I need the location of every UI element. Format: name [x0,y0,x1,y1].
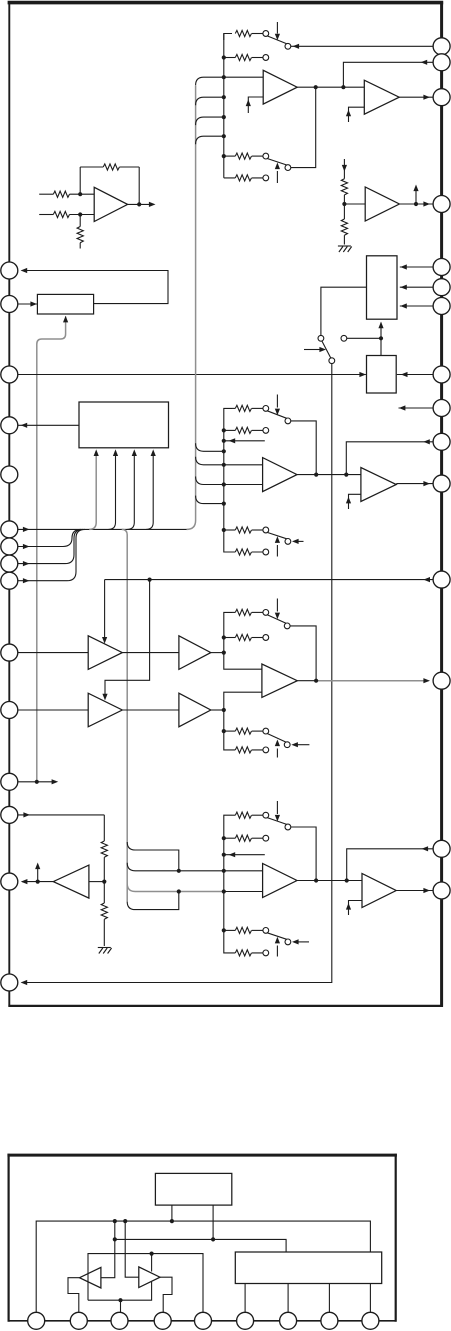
op-amp U13 [263,864,297,898]
wire gray bus descender [122,529,128,901]
resistor R6 [101,903,107,919]
pin P1 [1,262,18,279]
node GB4 in2 [222,889,226,893]
resistor R33 [224,730,236,732]
pin T3 [111,1312,128,1329]
op-amp U4 [263,458,297,492]
wire pin Q5 into B2 [400,266,433,268]
node GB1 s2 [222,95,226,99]
wire peel G4-b [127,863,224,871]
wire U14 gain control [349,901,363,916]
resistor R8 [341,219,347,235]
wire GB2 amp input 2 [224,484,263,486]
op-amp U12 [262,664,297,697]
node U6 output [414,202,418,206]
node GB3 r2 [222,635,226,639]
wire pin P13 line [18,814,105,816]
wire B5 leg 1 [171,1205,173,1221]
wire U1 output [128,203,149,205]
switch SW3b arm [267,734,286,743]
wire U3 gain control [349,107,365,122]
pin T1 [28,1312,45,1329]
wire B6 leg pin T8 [328,1284,330,1313]
wire U4 out node [297,474,361,476]
resistor R4 bias [77,227,83,243]
arrow into pin Q13 [423,678,430,683]
wire B2 left tap [321,287,367,335]
wire peel G2-b [196,457,224,465]
arrow GB2 ref stub [229,438,236,443]
arrow into B1 bottom [65,317,67,323]
wire GB4 feedback [291,827,316,881]
op-amp U3 buffer [364,80,399,114]
pin T4 [154,1312,171,1329]
wire gray control from pin P12 up to B1 [37,321,66,782]
wire pin Q9 stub [399,407,434,409]
resistor R3 feedback [103,164,119,170]
arrow into pin Q4 [423,201,430,206]
wire pin Q14 to node [347,849,433,881]
wire U1 input 1 [39,193,53,195]
pin P3 [1,366,18,383]
wire gray peel G4-c [127,884,224,892]
IC outline left border [8,1,10,1007]
op-amp U6 [365,187,399,221]
arrow U2 gain control [246,100,251,107]
arrow pin Q9 stub [399,405,406,410]
arrow SW1b control [276,171,278,183]
contact R34 circle [263,747,269,753]
wire U11 out to pin P14 [22,881,53,883]
resistor R21 [232,407,235,409]
wire mode line to pin P15 [22,364,332,983]
wire R2 to node [70,214,95,216]
node GB1 s4 [222,134,226,138]
switch contact R43 circle [263,928,269,934]
node U1 output [137,202,141,206]
wire pin P6 ribbon line [18,528,187,530]
wire GB3 feedback [290,626,316,681]
wire peel G4-d [127,892,179,910]
pin P15 [1,974,18,991]
wire U1 feedback top rail [80,166,103,168]
wire GB2 ref stub [224,440,265,442]
contact R32 circle [263,635,269,641]
wire GB4 bus [224,815,263,953]
arrow into B2 bottom [378,322,383,329]
node U13 out [314,878,318,882]
pin P11 [1,702,18,719]
pin Q12 [433,571,450,588]
arrow from pin Q10 [423,439,430,444]
wire U13 out node [297,880,362,882]
arrow U5 gain control [346,497,351,504]
wire gray bus vertical from block G1 [187,86,196,530]
arrow into pin P14 [21,879,28,884]
resistor R42 [224,837,236,839]
pin Q10 [433,433,450,450]
arrow SW5 control [319,347,326,352]
switch SW4b arm [267,933,287,940]
wire peel G2-d [196,496,224,504]
wire peel G1-b [196,97,224,105]
op-amp U1 [94,187,127,221]
package outline bottom [9,1320,396,1322]
wire ribbon riser 2 [109,452,116,530]
pin P5 [1,466,18,483]
pin T9 [362,1312,379,1329]
pin P2 [1,296,18,313]
switch contact R41 circle [263,812,269,818]
arrow into pin Q3 [423,95,430,100]
pin P4 [1,417,18,434]
arrow into box B1 [30,301,37,306]
wire B5 leg 2 [212,1205,214,1239]
pin Q1 [433,38,450,55]
arrow into B3 left [359,372,366,377]
arrow P9 stub [23,578,30,583]
node GB2 in2 [222,482,226,486]
wire pin P12 stub [18,781,52,783]
pin Q9 [433,400,450,417]
node line B left [113,1237,117,1241]
arrow toward SW1a [293,44,300,49]
op-amp U11 monitor buffer [53,865,89,898]
node P12 gray junction [35,780,39,784]
switch contact R13 circle [263,153,269,159]
arrow into U7 [102,637,107,644]
wire line A [36,1221,370,1312]
wire U16 out staircase to pin T4 [160,1277,172,1312]
arrow SW4b control [276,946,278,957]
resistor R13 [224,155,236,157]
wire GB2 amp input 1 [224,464,263,466]
node U4 out [314,473,318,477]
wire U14 out to pin Q15 [396,890,433,892]
node GB3 in2 [222,708,226,712]
arrow riser 2 into B4 [113,449,118,456]
arrow level stub [35,863,40,870]
wire GB3 lower bus [224,692,263,750]
wire loop top tap drop [151,1254,153,1272]
switch SW5 pole a [318,335,324,341]
arrow SW3b stub [291,742,298,747]
node monitor divider [102,880,106,884]
block B1 [37,294,93,314]
arrow riser 4 into B4 [151,449,156,456]
IC outline top border [8,1,444,5]
arrow from pin Q14 [422,846,429,851]
package outline left [8,1154,10,1322]
contact R42 circle [263,835,269,841]
node U2 out [314,85,318,89]
pin T6 [237,1312,254,1329]
wire supply arrow stem [343,159,345,179]
wire B4 to pin P4 [18,424,79,426]
op-amp U7 [88,636,122,670]
wire R8 to ground [343,235,345,244]
node GB2 s4 [222,502,226,506]
wire R4 lower stem [79,243,81,249]
pin Q14 [433,840,450,857]
arrow U6 level stub [413,185,418,192]
wire right amp input drop [125,1221,139,1277]
wire GB1 amp input [224,76,263,78]
arrow into pin Q11 [423,481,430,486]
switch SW1b arm [267,159,287,166]
arrow SW3a control [276,599,278,612]
switch contact R23 circle [263,527,269,533]
node buffer U3 in [341,85,345,89]
wire drop to U8 control [105,580,150,697]
resistor R22 [224,429,236,431]
wire U7 to U9 [122,652,179,654]
resistor R12 [224,57,236,59]
resistor R2 [53,211,69,217]
op-amp U2 [263,70,297,104]
resistor R24 [235,549,251,555]
wire loop rail [88,1254,203,1313]
block B5 top box [155,1173,231,1205]
node GB1 in [222,75,226,79]
block B4 control logic [79,402,169,448]
node line A amp tap left [113,1219,117,1223]
wire B6 leg pin T7 [287,1284,289,1313]
arrow U3 gain control [346,110,351,117]
wire B6 leg pin T9 [369,1284,371,1313]
wire peel G2-a [196,443,224,451]
block B3 [367,356,397,394]
node GB1 r2 [222,55,226,59]
wire GB1 bus top corner [224,34,232,41]
resistor R44 [235,950,251,956]
switch SW4a arm [267,818,287,825]
wire pin P11 to amp U8 [18,709,88,711]
arrow P13 [23,812,30,817]
wire pin P10 to amp U7 [18,652,88,654]
pin P8 [1,555,18,572]
ground monitor divider [98,948,112,954]
resistor R14 [235,175,251,181]
wire U6 out level stub [415,188,417,204]
wire GB3 upper bus [224,612,262,669]
node divider U6 [342,202,346,206]
node G4 merge lower [177,889,181,893]
resistor R31 [232,611,235,613]
ground U6 divider [338,246,352,252]
resistor R41 [232,814,235,816]
arrow P12 stub [52,779,59,784]
op-amp U14 buffer [362,874,396,908]
resistor R23 [224,529,236,531]
pin P6 [1,521,18,538]
wire peel G4-a [127,842,179,871]
wire U8 to U10 [122,709,179,711]
wire U10 out to bus [211,709,224,711]
wire c stub to node [347,337,381,339]
arrow out of B3 right [401,372,408,377]
pin T7 [280,1312,297,1329]
wire R7 to node [343,195,345,204]
arrow SW4a control [276,801,278,814]
node line A amp tap right [123,1219,127,1223]
contact R14 circle [263,175,269,181]
wire U15 out staircase to pin T2 [68,1278,80,1313]
node GB2 s1 [222,449,226,453]
wire U9 out to bus [211,652,224,654]
arrow P6 stub [23,527,30,532]
wire U1 input 2 [39,214,53,216]
wire pin Q10 to node [346,442,433,475]
node GB1 r3 [222,154,226,158]
wire level stub up [37,866,39,882]
switch SW5 arm [322,341,331,358]
resistor R32 [224,637,236,639]
wire node to R6 [103,882,105,903]
pin P7 [1,538,18,555]
arrow from pin Q2 [421,60,428,65]
op-amp U5 buffer [361,468,396,502]
wire GB4 ref stub [224,854,265,856]
node loop bottom tap [118,1298,122,1302]
wire U5 out to pin Q11 [396,483,433,485]
wire U2 out node [297,86,364,88]
pin P14 [1,873,18,890]
wire R4 stem [79,215,81,227]
IC outline right border [440,2,443,1007]
wire U5 gain control [349,494,361,509]
wire SW3b stub [295,744,309,746]
wire drop to U7 control [104,580,106,641]
wire node to U6 [344,203,365,205]
wire peel G1-a [196,77,224,85]
wire SW1a to pin Q1 [291,45,433,47]
wire loop bottom rail [88,1282,152,1300]
IC outline bottom border [8,1005,443,1007]
package outline right [395,1154,397,1322]
arrow U14 gain control [346,903,351,910]
switch contact R31 circle [263,610,269,616]
pin T8 [321,1312,338,1329]
wire R6 to ground [103,919,105,946]
contact R44 circle [263,950,269,956]
arrow SW2b control [276,545,278,557]
switch contact R33 circle [263,728,269,734]
pin P9 [1,572,18,589]
wire peel G1-d [196,136,224,144]
wire link up into B2 [380,323,382,339]
contact R22 circle [263,428,269,434]
wire R1 to node [70,193,95,195]
wire GB1 feedback [291,87,316,167]
op-amp U15 left [80,1267,101,1288]
node monitor branch [148,578,152,582]
wire pin Q6 into B2 [400,286,433,288]
resistor R34 [235,747,251,753]
wire B1 loop to pin P1 [22,271,169,304]
node GB4 ref [222,853,226,857]
op-amp U9 [179,636,211,670]
arrow into U8 [102,694,107,701]
arrow SW2a control [276,395,278,408]
wire GB4 amp input 2 [224,891,263,893]
node U1 inverting input [78,192,82,196]
wire node to R8 [343,204,345,219]
wire ribbon riser 3 [127,452,134,530]
contact R24 circle [263,549,269,555]
node GB2 ref [222,439,226,443]
resistor R1 [53,191,69,197]
wire block B3 to pin Q8 [397,374,433,376]
wire pin T3 riser [120,1300,122,1312]
wire pin P8 with S-curve [18,529,83,563]
pin Q13 [433,672,450,689]
node buffer U14 in [345,878,349,882]
switch SW1a arm [267,36,287,44]
node GB3 r3 [222,729,226,733]
node GB4 in1 [222,869,226,873]
package outline top [7,1154,397,1157]
switch SW5 pole b [329,358,335,364]
wire pin P2 to box B1 [18,303,37,305]
arrow into pin Q15 [423,888,430,893]
pin T2 [70,1312,87,1329]
wire U6 output to pin Q4 [399,203,433,205]
resistor R11 [235,30,251,36]
node GB1 s3 [222,115,226,119]
pin Q3 [433,89,450,106]
pin Q15 [433,882,450,899]
block B2 [367,256,398,319]
pin T5 [195,1312,212,1329]
wire GB2 feedback [291,421,316,475]
pin Q8 [433,366,450,383]
node buffer U5 in [344,473,348,477]
wire pin Q2 to node [343,62,433,87]
pin P12 [1,773,18,790]
wire monitor line to pin Q12 [105,579,433,581]
node GB2 in1 [222,463,226,467]
wire U12 out gray to pin Q13 [316,680,428,682]
pin Q2 [433,54,450,71]
wire GB4 amp input 1 [224,870,263,872]
pin Q6 [433,279,450,296]
wire U12 tip to node [297,680,316,682]
node G4 merge upper [177,869,181,873]
wire peel G1-c [196,117,224,125]
node B2-B3 link [379,336,383,340]
pin P13 [1,806,18,823]
arrow supply into R7 [342,165,347,172]
pin P10 [1,644,18,661]
wire left amp input drop [101,1221,115,1278]
arrow riser 1 into B4 [94,449,99,456]
switch contact R11 circle [263,31,269,37]
pin Q4 [433,196,450,213]
block B6 bottom box [235,1252,381,1284]
resistor R5 [101,841,107,857]
switch SW3a arm [267,615,286,624]
wire B6 leg pin T6 [244,1284,246,1313]
wire pin Q7 into B2 [400,305,433,307]
node loop top tap [150,1252,154,1256]
node U12 out [314,679,318,683]
node line B leg2 [211,1237,215,1241]
node GB2 r2 [222,428,226,432]
wire pin P9 with S-curve [18,529,85,580]
switch SW2a arm [267,411,287,419]
arrow into pin P15 [21,980,28,985]
